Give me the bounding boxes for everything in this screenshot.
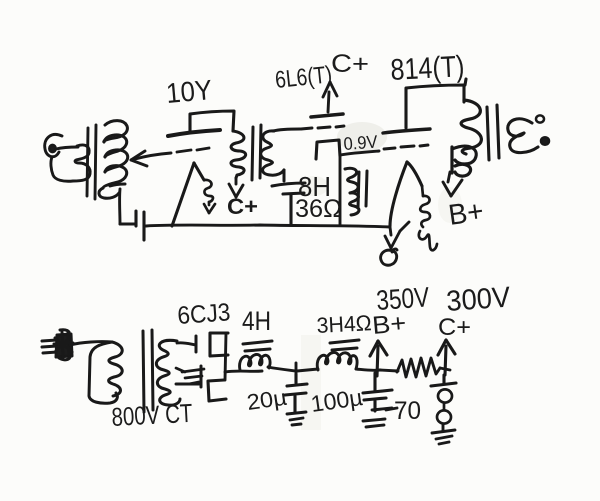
node tick xyxy=(295,363,298,377)
T1 secondary winding xyxy=(99,121,128,199)
svg-text:4H: 4H xyxy=(242,306,271,336)
choke L2 4H core xyxy=(243,341,272,351)
terminal circle 2 xyxy=(437,410,451,423)
L1 core marks xyxy=(358,171,367,208)
T3 secondary xyxy=(508,119,538,153)
smudge scan streak xyxy=(301,335,321,430)
ground (terminals) xyxy=(432,424,455,444)
T4 core xyxy=(143,330,153,412)
L3 winding xyxy=(317,352,357,370)
arrow down to O xyxy=(385,222,409,248)
T2 secondary xyxy=(261,129,300,181)
arrow down to C+ (V1 plate supply) xyxy=(229,178,243,197)
V1 grid bar xyxy=(168,130,220,136)
smudge near 0.9V xyxy=(337,122,387,152)
smudge near 8H xyxy=(300,176,328,196)
input jack J1 xyxy=(45,134,90,181)
T2 core xyxy=(252,125,261,180)
battery in rail xyxy=(136,211,144,240)
tube V2 6L6 plate and arrow xyxy=(311,114,343,117)
output transformer T3 primary xyxy=(452,100,481,176)
C+ arrow xyxy=(438,340,455,375)
PSU transformer T4 primary xyxy=(89,342,122,403)
wire rectifier output xyxy=(225,371,262,372)
V3 cathode tent xyxy=(390,162,422,226)
coupling capacitor xyxy=(272,183,305,224)
terminal circle 1 xyxy=(438,389,452,402)
wire V2 cathode down xyxy=(339,157,342,225)
rectifier V4 top diode plate xyxy=(195,336,198,352)
terminal link xyxy=(443,403,446,410)
wire L2 to node xyxy=(268,367,296,371)
capacitor C2 100u xyxy=(363,373,392,411)
T3 core xyxy=(487,105,499,160)
V3 filament squiggle xyxy=(419,186,437,250)
wire node to L3 xyxy=(297,369,318,371)
svg-text:814(T): 814(T) xyxy=(390,50,466,87)
interstage transformer T2 primary xyxy=(231,131,246,178)
wire T3 primary to B+ arrow xyxy=(443,172,462,196)
cathode bus xyxy=(225,333,226,380)
grid lead arrow to T1 xyxy=(131,148,209,166)
svg-text:300V: 300V xyxy=(445,282,512,318)
ground (C2) xyxy=(363,408,392,427)
svg-text:10Y: 10Y xyxy=(165,74,214,109)
wire T1 secondary to rail xyxy=(118,189,121,224)
V3 grid bar xyxy=(383,129,430,133)
V2 cathode xyxy=(316,140,340,159)
PSU mains plug xyxy=(42,330,73,360)
svg-text:800V CT: 800V CT xyxy=(111,398,194,432)
wire L3 to B+ node xyxy=(356,369,380,370)
svg-text:B+: B+ xyxy=(447,195,486,232)
wire resistor to C+ node xyxy=(440,368,450,370)
L2 winding xyxy=(240,354,271,370)
capacitor C1 20u xyxy=(285,374,307,412)
terminal bar xyxy=(431,375,456,386)
svg-text:C+: C+ xyxy=(227,194,258,219)
T4 secondary top lead xyxy=(177,343,196,345)
svg-text:6CJ3: 6CJ3 xyxy=(176,298,231,330)
centre tap ground xyxy=(176,368,204,384)
input transformer T1 core xyxy=(87,125,96,199)
output terminal bottom xyxy=(541,137,549,145)
choke L3 3H core xyxy=(330,340,359,350)
V4 bottom diode cathode xyxy=(208,380,226,401)
V1 cathode tent xyxy=(172,163,204,226)
resistor R1 xyxy=(397,358,440,377)
label -70 xyxy=(386,408,397,410)
choke L1 8H 36ohm xyxy=(345,168,359,215)
smudge near B+ xyxy=(438,187,462,223)
T4 secondary bottom lead xyxy=(176,383,199,386)
svg-text:36Ω: 36Ω xyxy=(295,195,342,223)
svg-text:350V: 350V xyxy=(375,281,430,316)
wire plug to T4 primary xyxy=(70,342,112,345)
tube V1 10Y plate xyxy=(190,111,234,133)
svg-text:3H4Ω: 3H4Ω xyxy=(316,310,372,338)
V4 top diode cathode xyxy=(210,333,228,356)
svg-text:C+: C+ xyxy=(331,50,369,78)
T4 secondary xyxy=(156,340,180,405)
svg-text:70: 70 xyxy=(394,397,421,425)
V2 grid dashes xyxy=(301,126,344,129)
ground rail (top circuit) xyxy=(120,224,390,227)
label O xyxy=(381,249,397,265)
V1 filament squiggle and arrow xyxy=(204,180,215,213)
wire V2 cathode to 814 grid xyxy=(340,145,428,155)
B+ arrow xyxy=(370,341,387,376)
output terminal top xyxy=(536,115,544,122)
tube V3 814 plate xyxy=(406,79,466,128)
svg-text:C+: C+ xyxy=(438,314,471,341)
ground (C1) xyxy=(287,412,306,425)
wire B+ node to resistor xyxy=(380,370,398,371)
V4 bottom diode plate xyxy=(200,366,203,387)
